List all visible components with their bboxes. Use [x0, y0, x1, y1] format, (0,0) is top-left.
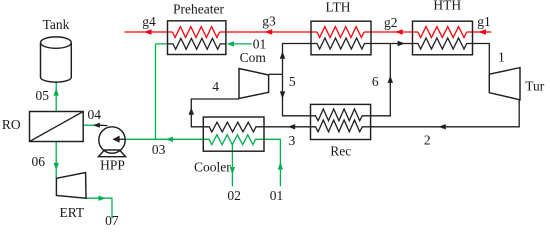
pump HPP suction stub and arrow: [119, 138, 125, 140]
compressor Com: [239, 69, 269, 99]
arrow up on 05: [54, 88, 59, 95]
arrow up on 01 riser: [278, 162, 283, 169]
wire 1 HTH outlet to turbine: [473, 44, 490, 75]
svg-text:g2: g2: [384, 15, 398, 30]
heat coil HTH cold side (black): [413, 38, 473, 49]
svg-text:3: 3: [289, 133, 296, 148]
arrow down on line 5: [280, 91, 285, 98]
heat coil Rec cold side upper (black): [311, 109, 371, 121]
wire 02 cooling water outlet drop: [231, 145, 233, 187]
svg-text:03: 03: [152, 142, 166, 157]
wire g4 red exhaust out: [125, 31, 173, 33]
wire 05 RO to Tank: [55, 82, 57, 112]
arrow left on line 2: [438, 124, 445, 129]
arrow g1: [478, 29, 486, 34]
arrow up on line 6: [388, 76, 393, 83]
arrow left on line 3: [288, 124, 295, 129]
svg-text:02: 02: [227, 188, 241, 203]
svg-text:LTH: LTH: [325, 0, 350, 14]
arrow down on 06: [54, 163, 59, 170]
arrow right on 07: [98, 196, 105, 201]
heat coil Preheater hot side (red): [173, 27, 220, 38]
wire 06 RO down to ERT: [55, 142, 57, 178]
pump HPP circle: [99, 127, 125, 153]
arrow up on line 4: [189, 107, 194, 114]
heat coil Cooler water side (green): [203, 135, 264, 145]
wire 01 cooling water inlet riser: [264, 139, 280, 186]
wire g1 red inlet: [467, 31, 492, 33]
svg-text:Cooler: Cooler: [194, 160, 231, 175]
RO diagonal: [30, 112, 84, 142]
tank top ellipse: [41, 37, 72, 48]
arrow g3: [265, 29, 273, 34]
wire 2 turbine outlet to Rec hot inlet: [371, 100, 520, 127]
heat coil Cooler hot side (black): [203, 122, 264, 132]
wire LTH outlet to HTH inlet, node 6 junction: [371, 43, 413, 45]
svg-text:04: 04: [87, 107, 101, 122]
wire 04 pump to RO: [83, 124, 98, 126]
svg-text:2: 2: [424, 132, 431, 147]
svg-text:Rec: Rec: [330, 143, 351, 158]
heat coil HTH hot side (red): [418, 27, 467, 38]
svg-text:01: 01: [270, 188, 284, 203]
svg-text:g3: g3: [262, 14, 276, 29]
wire g3 red between Preheater and LTH: [220, 31, 318, 33]
svg-text:05: 05: [35, 88, 49, 103]
wire node 5 up to LTH cold inlet: [283, 44, 312, 75]
arrow into HTH: [398, 41, 405, 46]
svg-text:HPP: HPP: [100, 158, 125, 173]
wire 03 horizontal cooler to pump: [125, 138, 203, 140]
wire 01 feed into Preheater right: [234, 43, 252, 45]
arrow down on 02 drop: [230, 167, 235, 174]
membrane module RO box: [30, 112, 84, 142]
arrow left on 03 line: [166, 137, 173, 142]
arrow 01 into preheater: [227, 41, 234, 46]
wire 3 Rec hot outlet to Cooler: [264, 126, 311, 128]
arrow g4: [144, 29, 152, 34]
heat exchanger Cooler box: [203, 117, 264, 151]
heat coil LTH cold side (black): [311, 38, 371, 49]
turbine ERT energy recovery: [56, 173, 86, 199]
tank cylinder body: [41, 43, 72, 83]
svg-text:06: 06: [31, 154, 45, 169]
wire 4 Cooler outlet to compressor: [191, 99, 239, 127]
pump HPP base: [99, 150, 126, 157]
arrow up on line 5: [280, 51, 285, 58]
heat coil Preheater water side (black coil): [168, 38, 226, 49]
svg-text:07: 07: [105, 213, 119, 228]
arrow g2: [395, 29, 403, 34]
heat exchanger Preheater box: [168, 21, 226, 55]
svg-text:RO: RO: [2, 117, 21, 132]
svg-text:Tur: Tur: [525, 79, 545, 94]
svg-text:1: 1: [498, 50, 505, 65]
svg-text:g4: g4: [142, 14, 156, 29]
wire Preheater water outlet down to node 03: [156, 44, 168, 139]
wire 6 Rec cold outlet up to junction: [371, 44, 391, 116]
heat exchanger LTH box: [311, 21, 371, 55]
heat exchanger HTH box: [413, 21, 473, 55]
svg-text:HTH: HTH: [433, 0, 461, 13]
wire g2 red between LTH and HTH: [364, 31, 418, 33]
wire node 5 down to Rec cold inlet: [283, 74, 311, 116]
svg-text:4: 4: [212, 79, 219, 94]
svg-text:g1: g1: [477, 14, 491, 29]
svg-text:Tank: Tank: [43, 17, 70, 32]
svg-text:ERT: ERT: [59, 205, 84, 220]
svg-text:Preheater: Preheater: [173, 1, 224, 16]
svg-text:Com: Com: [240, 50, 267, 65]
heat coil LTH hot side (red): [317, 27, 364, 38]
turbine Tur: [489, 68, 520, 100]
heat coil Rec hot side lower (black): [311, 120, 371, 132]
svg-text:5: 5: [289, 74, 296, 89]
wire compressor outlet to node 5: [269, 73, 283, 75]
svg-text:6: 6: [372, 74, 379, 89]
heat exchanger Rec box: [311, 104, 371, 139]
arrow 04 into RO: [93, 123, 100, 128]
wire 07 ERT outlet: [86, 198, 112, 218]
